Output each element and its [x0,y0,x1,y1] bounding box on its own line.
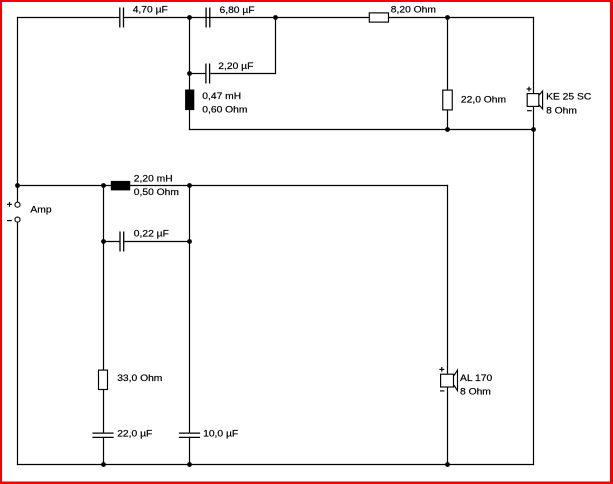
wire KE plus lead [533,17,535,94]
svg-text:4,70 µF: 4,70 µF [133,5,168,15]
wire 22 Ohm drop lower [447,110,449,130]
node bottom rail x189 [187,462,192,467]
svg-text:33,0 Ohm: 33,0 Ohm [117,374,162,384]
speaker AL plus mark [439,367,444,372]
node mid rail x189 [187,183,192,188]
capacitor C2 6,80 uF plates [206,8,210,28]
svg-text:8,20 Ohm: 8,20 Ohm [391,5,436,15]
node tweeter bottom x447 [445,127,450,132]
capacitor C1 4,70 uF plates [120,8,124,28]
capacitor C5 22,0 uF plates [92,433,113,437]
inductor L1 0,47 mH [185,90,194,111]
svg-text:2,20 mH: 2,20 mH [134,174,173,184]
wire left rail upper [17,17,19,202]
resistor R2 22,0 Ohm [443,90,453,110]
wire mid rail horizontal right [130,185,448,187]
wire AL minus lead [447,387,449,465]
wire 22 Ohm drop upper [447,17,449,90]
wire x189 mid rail upper [189,185,191,433]
wire top rail middle segment [124,17,369,19]
svg-text:10,0 µF: 10,0 µF [203,429,238,439]
node mid rail x103 [101,183,106,188]
wire AL plus lead [447,185,449,374]
node 2.20uF branch [187,71,192,76]
wire 2.20uF branch left [190,73,206,75]
svg-text:KE 25 SC: KE 25 SC [546,92,591,102]
node 0.22uF branch right [187,239,192,244]
speaker AL 170 [441,370,458,391]
wire 2.20uF branch right [210,73,276,75]
node top junction x447 [445,15,450,20]
node top junction x275 [273,15,278,20]
wire mid rail horizontal left [17,185,111,187]
svg-text:0,50 Ohm: 0,50 Ohm [134,188,179,198]
svg-text:0,47 mH: 0,47 mH [202,91,241,101]
svg-text:Amp: Amp [30,205,51,215]
wire 0.22uF branch right [124,241,190,243]
amp minus mark [7,220,12,222]
wire left rail lower [17,222,19,465]
node 0.22uF branch left [101,239,106,244]
wire tweeter branch vertical upper [189,17,191,90]
capacitor C3 2,20 uF plates [206,64,210,84]
wire top rail left segment [17,17,119,19]
speaker AL minus mark [440,390,444,392]
wire x103 rail mid [103,389,105,433]
svg-text:22,0 µF: 22,0 µF [117,429,152,439]
node top junction x189 [187,15,192,20]
svg-text:AL 170: AL 170 [460,373,492,383]
svg-text:6,80 µF: 6,80 µF [220,5,255,15]
inductor L2 2,20 mH [111,181,130,191]
svg-text:0,60 Ohm: 0,60 Ohm [202,105,247,115]
wire bottom rail [17,464,534,466]
amp minus terminal [15,217,20,222]
wire x189 mid rail lower [189,438,191,465]
wire top rail right segment [389,17,535,19]
capacitor C4 0,22 uF plates [120,232,124,252]
wire right rail [533,129,535,465]
svg-text:22,0 Ohm: 22,0 Ohm [461,95,506,105]
wire tweeter branch below L1 [189,110,191,130]
svg-text:8 Ohm: 8 Ohm [460,387,491,397]
wire 2.20uF riser [275,17,277,74]
wire tweeter bottom horizontal [189,129,534,131]
amp plus mark [7,202,12,207]
svg-text:0,22 µF: 0,22 µF [134,229,169,239]
speaker KE 25 SC [527,91,542,109]
capacitor C6 10,0 uF plates [179,433,200,437]
wire x103 rail lower [103,438,105,465]
resistor R3 33,0 Ohm [99,370,108,389]
node bottom rail x103 [101,462,106,467]
speaker KE minus mark [527,110,532,112]
svg-text:2,20 µF: 2,20 µF [218,62,253,72]
node mid rail left [15,183,20,188]
svg-text:8 Ohm: 8 Ohm [546,106,577,116]
amp plus terminal [15,202,20,207]
resistor R1 8,20 Ohm [369,13,388,22]
wire KE minus lead [533,106,535,130]
wire x103 rail upper [103,185,105,370]
wire 0.22uF branch left [103,241,120,243]
speaker KE plus mark [527,87,532,92]
node bottom rail x447 [445,462,450,467]
node tweeter bottom x533 [531,127,536,132]
